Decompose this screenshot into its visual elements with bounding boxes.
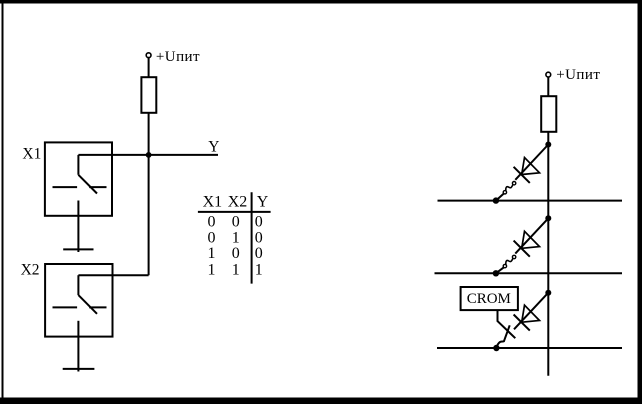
frame top border bbox=[0, 0, 642, 4]
switch X1 left contact bbox=[53, 186, 78, 188]
fuse F1 upper circle bbox=[512, 182, 515, 185]
fuse F1 tail wire bbox=[496, 194, 504, 201]
svg-text:0: 0 bbox=[255, 229, 263, 246]
svg-text:1: 1 bbox=[232, 229, 240, 246]
svg-text:Y: Y bbox=[208, 138, 219, 155]
fuse F1 lower circle bbox=[503, 191, 506, 194]
word line 3 bbox=[437, 347, 622, 349]
switch X1 bottom lead bbox=[77, 201, 79, 253]
ground X1 bbox=[63, 248, 93, 250]
switch X2 bottom lead bbox=[77, 321, 79, 372]
resistor R2 bbox=[541, 96, 556, 132]
switch X2 left contact bbox=[53, 306, 78, 308]
power terminal right +Uпит bbox=[546, 72, 551, 77]
bit line vertical wire bbox=[547, 132, 549, 376]
svg-text:X2: X2 bbox=[21, 262, 40, 279]
diode D3 cathode bar bbox=[514, 315, 530, 331]
diode D1 anode lead bbox=[515, 145, 548, 180]
svg-text:0: 0 bbox=[208, 214, 216, 231]
svg-text:+Uпит: +Uпит bbox=[556, 67, 600, 83]
frame left border bbox=[2, 0, 4, 404]
wire terminal to resistor R1 bbox=[148, 58, 150, 77]
svg-text:X2: X2 bbox=[228, 194, 248, 211]
word line 1 bbox=[438, 200, 623, 202]
node word line 2 bbox=[493, 270, 499, 276]
svg-text:0: 0 bbox=[232, 245, 240, 262]
node bit line 1 bbox=[545, 142, 551, 148]
switch X2 right contact bbox=[89, 306, 106, 308]
truth table vertical rule bbox=[251, 192, 253, 283]
svg-text:0: 0 bbox=[255, 245, 263, 262]
svg-text:+Uпит: +Uпит bbox=[156, 49, 200, 65]
svg-text:1: 1 bbox=[255, 261, 263, 278]
diode D1 cathode bar bbox=[514, 167, 530, 183]
power terminal left +Uпит bbox=[146, 53, 151, 58]
diode D2 cathode bar bbox=[514, 241, 530, 257]
svg-text:0: 0 bbox=[232, 214, 240, 231]
wire node Y down to X2 bbox=[148, 155, 150, 275]
resistor R1 bbox=[141, 77, 156, 113]
switch X1 blade bbox=[78, 175, 97, 194]
svg-text:X1: X1 bbox=[22, 145, 41, 162]
svg-text:1: 1 bbox=[208, 245, 216, 262]
diode D2 triangle bbox=[522, 231, 540, 248]
wire output Y bbox=[78, 154, 218, 156]
word line 2 bbox=[435, 272, 623, 274]
ground X2 bbox=[63, 368, 95, 370]
diode D2 anode lead bbox=[515, 218, 548, 253]
diode D3 anode lead bbox=[514, 293, 548, 330]
switch X1 box bbox=[45, 142, 112, 215]
svg-text:1: 1 bbox=[208, 261, 216, 278]
svg-text:0: 0 bbox=[255, 214, 263, 231]
fuse F2 link bbox=[506, 258, 513, 265]
node word line 3 bbox=[493, 345, 499, 351]
fuse F1 link bbox=[506, 185, 513, 192]
svg-text:1: 1 bbox=[232, 261, 240, 278]
node Y junction bbox=[146, 152, 152, 158]
svg-text:Y: Y bbox=[257, 194, 269, 211]
svg-text:X1: X1 bbox=[203, 194, 223, 211]
diode D1 triangle bbox=[522, 158, 540, 175]
switch X2 box bbox=[45, 264, 112, 337]
fuse F2 lower circle bbox=[503, 264, 506, 267]
fuse F2 upper circle bbox=[512, 255, 515, 258]
blown fuse blade bbox=[496, 325, 509, 348]
diode D3 triangle bbox=[522, 305, 540, 322]
switch X1 right contact bbox=[89, 186, 106, 188]
CROM lead bbox=[498, 310, 516, 338]
svg-text:0: 0 bbox=[208, 229, 216, 246]
frame right border bbox=[638, 0, 642, 404]
wire terminal to resistor R2 bbox=[547, 77, 549, 96]
switch X2 blade bbox=[78, 295, 97, 314]
fuse F2 tail wire bbox=[496, 267, 504, 273]
node bit line 2 bbox=[545, 215, 551, 221]
switch X2 top lead bbox=[77, 275, 79, 295]
wire into X2 bbox=[78, 274, 148, 276]
frame bottom border bbox=[0, 398, 642, 404]
wire R1 to node Y bbox=[148, 113, 150, 155]
truth table horizontal rule bbox=[198, 211, 271, 213]
node word line 1 bbox=[493, 197, 499, 203]
node bit line 3 bbox=[545, 290, 551, 296]
svg-text:CROM: CROM bbox=[467, 291, 511, 307]
CROM box bbox=[461, 287, 518, 310]
switch X1 top lead bbox=[77, 155, 79, 175]
